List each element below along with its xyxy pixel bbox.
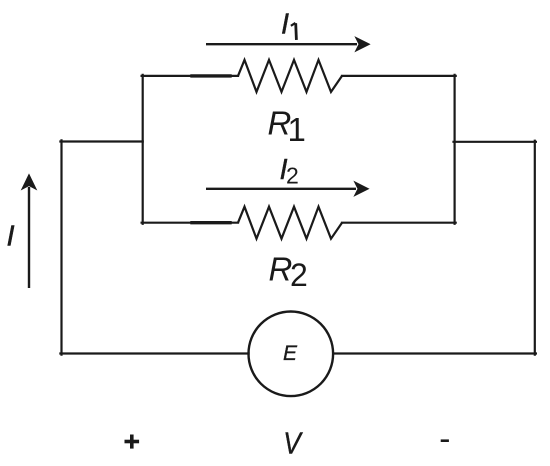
svg-text:R: R bbox=[269, 251, 293, 288]
wire top-right horizontal stub bbox=[454, 141, 536, 143]
arrow I1 bbox=[206, 37, 370, 51]
svg-text:V: V bbox=[283, 427, 303, 461]
svg-text:2: 2 bbox=[290, 257, 308, 293]
svg-text:2: 2 bbox=[286, 162, 299, 188]
wire bottom-right horizontal bbox=[333, 352, 536, 354]
arrow I2 bbox=[206, 182, 369, 196]
wire branch left vertical bbox=[142, 75, 144, 224]
wire overlap dark segment bottom bbox=[192, 221, 230, 224]
svg-text:1: 1 bbox=[288, 111, 306, 148]
svg-text:I: I bbox=[281, 8, 289, 40]
source E circle bbox=[248, 312, 333, 397]
wire bottom-left horizontal bbox=[60, 352, 248, 354]
wire bottom branch right segment bbox=[342, 222, 456, 224]
wire overlap dark segment top bbox=[192, 74, 230, 77]
resistor R2 bbox=[238, 207, 342, 239]
wire top-left horizontal stub bbox=[60, 140, 142, 142]
arrow I (left, up) bbox=[22, 175, 36, 289]
wire bottom branch left segment bbox=[142, 222, 238, 224]
resistor R1 bbox=[238, 60, 342, 92]
wire top branch left segment bbox=[142, 75, 238, 77]
wire outer left vertical bbox=[60, 140, 62, 354]
label minus bbox=[441, 439, 449, 442]
wire top branch right segment bbox=[342, 75, 456, 77]
wire branch right vertical bbox=[454, 75, 456, 224]
wire outer right vertical bbox=[534, 141, 536, 355]
svg-text:I: I bbox=[7, 221, 15, 253]
svg-text:E: E bbox=[283, 342, 298, 365]
label plus bbox=[125, 435, 140, 449]
